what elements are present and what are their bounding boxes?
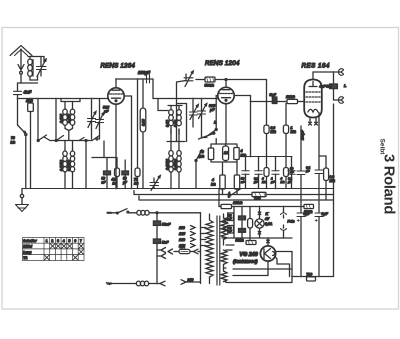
svg-text:5nF: 5nF bbox=[162, 241, 169, 245]
svg-text:100pF: 100pF bbox=[138, 70, 151, 75]
svg-text:10kΩ: 10kΩ bbox=[233, 201, 242, 205]
svg-text:μF: μF bbox=[287, 180, 292, 184]
wire vertical bbox=[55, 99, 57, 141]
svg-text:110: 110 bbox=[179, 226, 185, 230]
svg-text:kΩ: kΩ bbox=[134, 182, 139, 186]
svg-text:(RGN1064): (RGN1064) bbox=[233, 259, 258, 265]
svg-text:140: 140 bbox=[179, 238, 185, 242]
tube U3 RES164 bbox=[304, 80, 322, 118]
bus E resistor 10k bbox=[221, 204, 232, 208]
svg-text:8μF: 8μF bbox=[304, 212, 311, 216]
svg-text:μF: μF bbox=[253, 180, 258, 184]
fuse Fein bbox=[281, 207, 287, 239]
tube U2 right lead bbox=[234, 95, 250, 97]
svg-text:4: 4 bbox=[63, 239, 65, 243]
svg-text:μF: μF bbox=[305, 169, 310, 173]
block caps bbox=[239, 207, 246, 239]
svg-text:kΩ: kΩ bbox=[211, 183, 216, 187]
svg-text:3: 3 bbox=[57, 239, 59, 243]
cap under tube3 bbox=[297, 126, 305, 213]
svg-text:Ω: Ω bbox=[112, 182, 116, 186]
switch table bbox=[23, 238, 85, 261]
tube U1 left lead joins bus bbox=[107, 98, 109, 100]
svg-text:0.0920: 0.0920 bbox=[165, 159, 169, 170]
svg-text:nF: nF bbox=[228, 229, 232, 233]
transformer T1 secondary fil2 bbox=[221, 268, 227, 282]
bank switch contacts bbox=[44, 137, 84, 141]
svg-text:0.0930: 0.0930 bbox=[67, 160, 71, 171]
coil L2 0.020 bbox=[63, 102, 69, 131]
svg-text:100pF: 100pF bbox=[301, 129, 305, 140]
tube U1 RENS1264 bbox=[108, 88, 124, 104]
wire right of bank bbox=[77, 99, 93, 189]
anode feed wire bbox=[266, 80, 268, 126]
bus G bbox=[292, 276, 334, 278]
svg-text:MΩ: MΩ bbox=[291, 130, 297, 134]
rectifier right leads bbox=[233, 252, 292, 283]
switch S2 bbox=[55, 136, 63, 142]
tube U2 RENS1204 bbox=[218, 87, 234, 103]
jack J2 bbox=[334, 97, 344, 277]
mains cord line bbox=[107, 280, 201, 286]
svg-text:Schalter: Schalter bbox=[23, 239, 37, 243]
bus D bbox=[139, 196, 334, 200]
svg-text:50: 50 bbox=[200, 150, 204, 154]
svg-text:0.030: 0.030 bbox=[67, 114, 71, 123]
svg-text:0.020: 0.020 bbox=[60, 114, 64, 123]
antenna bbox=[10, 46, 32, 75]
rounded resistor bbox=[248, 207, 253, 239]
svg-text:4: 4 bbox=[240, 149, 243, 153]
bus H bbox=[226, 282, 292, 284]
resistor 0.3M bbox=[264, 125, 269, 157]
antenna trimmer C1 bbox=[37, 57, 47, 77]
capacitor 4nF bbox=[14, 83, 22, 99]
tube U1 top lead bbox=[116, 79, 153, 88]
right RC pair bbox=[315, 113, 329, 214]
mains switch line bbox=[108, 209, 201, 216]
svg-text:8μF: 8μF bbox=[322, 212, 329, 216]
svg-text:240: 240 bbox=[187, 278, 194, 282]
svg-text:50nF: 50nF bbox=[162, 223, 171, 227]
svg-text:125: 125 bbox=[179, 232, 186, 236]
transformer T1 core bbox=[217, 216, 220, 285]
coil bank lower loop bbox=[50, 141, 77, 149]
svg-text:0.0920: 0.0920 bbox=[60, 160, 64, 171]
svg-text:500Ω: 500Ω bbox=[205, 84, 214, 88]
svg-text:5: 5 bbox=[69, 239, 71, 243]
svg-text:K: K bbox=[266, 212, 269, 216]
svg-text:TA: TA bbox=[23, 256, 28, 260]
ground bus bbox=[22, 188, 334, 190]
svg-text:0.80: 0.80 bbox=[165, 120, 169, 127]
svg-text:7: 7 bbox=[80, 239, 82, 243]
svg-text:Seibt: Seibt bbox=[379, 139, 386, 156]
bypass cap 50uF bbox=[122, 160, 129, 189]
switch Kb bbox=[18, 99, 27, 189]
bus E bbox=[219, 206, 314, 208]
svg-text:4: 4 bbox=[211, 178, 214, 182]
table crosses bbox=[45, 244, 83, 260]
svg-text:nF: nF bbox=[241, 180, 245, 184]
resistor 10k bbox=[287, 99, 298, 103]
anode resistor 0.80 bbox=[140, 79, 146, 189]
band filter 2 top loop bbox=[158, 99, 182, 111]
coil L3 0.030 bbox=[69, 102, 75, 131]
svg-text:500Ω: 500Ω bbox=[236, 239, 245, 243]
trimmer C2 bbox=[88, 99, 97, 140]
coil L8 bbox=[169, 149, 173, 189]
svg-text:5nF: 5nF bbox=[270, 93, 277, 97]
transformer T1 secondary fil1 bbox=[221, 250, 232, 268]
svg-text:MΩ: MΩ bbox=[330, 179, 336, 183]
svg-text:kΩ: kΩ bbox=[200, 155, 205, 159]
tube U2 bottom lead bbox=[225, 104, 227, 144]
tube U3 pins bbox=[309, 118, 318, 126]
svg-text:10kΩ: 10kΩ bbox=[286, 95, 295, 99]
coil L6 bbox=[169, 106, 174, 135]
wave switch S1 bbox=[37, 99, 46, 142]
svg-text:4V: 4V bbox=[264, 217, 270, 221]
resistor 100 bbox=[28, 99, 34, 189]
antenna coil L1 bbox=[21, 57, 44, 84]
svg-text:2: 2 bbox=[51, 239, 53, 243]
coil L9 bbox=[177, 149, 181, 189]
svg-text:Mittel: Mittel bbox=[23, 245, 32, 249]
svg-text:Fein: Fein bbox=[288, 220, 295, 224]
resistor 500 box bbox=[196, 77, 215, 82]
coupling cap 100pF bbox=[147, 75, 150, 84]
switch L lever bbox=[206, 129, 218, 145]
svg-text:155: 155 bbox=[179, 244, 186, 248]
svg-text:3 Roland: 3 Roland bbox=[381, 154, 397, 214]
trimmer C3 bbox=[96, 99, 105, 140]
resistor 1M bbox=[283, 104, 288, 157]
svg-text:0,1A: 0,1A bbox=[265, 222, 273, 226]
switch S5 bbox=[195, 150, 202, 189]
svg-text:VG 240: VG 240 bbox=[240, 252, 258, 258]
transformer T1 taps bbox=[191, 213, 207, 284]
tube U3 top lead bbox=[313, 72, 334, 80]
top grid bus bbox=[18, 98, 109, 100]
link wire down bbox=[153, 79, 218, 99]
electrolytic 8uF no2 bbox=[315, 213, 323, 277]
coil L4 0.0920 bbox=[63, 149, 67, 189]
svg-text:nF: nF bbox=[228, 217, 232, 221]
svg-text:4nF: 4nF bbox=[23, 90, 32, 95]
svg-text:700: 700 bbox=[307, 273, 313, 277]
svg-text:kΩ: kΩ bbox=[11, 141, 16, 145]
tube2 grid lead bbox=[216, 96, 218, 130]
tube U2 top lead bbox=[215, 80, 266, 88]
osc branch wire bbox=[177, 104, 187, 142]
svg-text:6: 6 bbox=[74, 239, 76, 243]
svg-text:RENS 1204: RENS 1204 bbox=[205, 60, 240, 67]
svg-text:μF: μF bbox=[270, 180, 275, 184]
svg-text:RENS 1264: RENS 1264 bbox=[101, 63, 136, 70]
bus F bbox=[222, 237, 292, 239]
center wire bbox=[68, 131, 70, 141]
resistor 70k bbox=[135, 79, 140, 189]
svg-text:pF: pF bbox=[209, 108, 215, 112]
svg-text:70: 70 bbox=[11, 136, 15, 140]
lower boxes 4k bbox=[220, 162, 240, 195]
caps on selector column bbox=[153, 213, 160, 284]
svg-text:pF: pF bbox=[103, 110, 109, 114]
svg-text:0.80: 0.80 bbox=[141, 119, 145, 126]
electrolytic 8uF no1 bbox=[297, 213, 305, 277]
transformer T1 primary bbox=[206, 220, 213, 277]
bus E resistor 500 bbox=[304, 204, 314, 208]
heater line caps cluster bbox=[242, 157, 295, 189]
svg-text:1A: 1A bbox=[224, 151, 229, 155]
osc trimmer C7 bbox=[198, 99, 207, 138]
svg-text:0.0930: 0.0930 bbox=[173, 159, 177, 170]
svg-text:MΩ: MΩ bbox=[271, 130, 277, 134]
blocking cap 4nF bbox=[330, 72, 338, 100]
bus G resistor 700 bbox=[307, 277, 316, 281]
switch A bbox=[228, 189, 241, 198]
hv boxes 50/10 bbox=[223, 207, 234, 239]
dial lamp bbox=[255, 207, 264, 239]
switch lever 2 bbox=[199, 132, 215, 139]
coil L5 0.0930 bbox=[70, 149, 74, 189]
fuse 2A bbox=[168, 249, 201, 254]
tube U1 bottom lead bbox=[115, 104, 117, 188]
jack J1 bbox=[334, 69, 344, 76]
switch S3 bbox=[85, 136, 100, 142]
svg-text:1: 1 bbox=[46, 239, 48, 243]
transformer T1 secondary HT bbox=[221, 214, 234, 245]
wire to anode net bbox=[250, 102, 252, 157]
tube U1 right lead bbox=[124, 96, 131, 189]
cathode resistor 420 bbox=[115, 168, 120, 189]
selector forks bbox=[157, 248, 166, 259]
svg-text:Lang: Lang bbox=[23, 250, 32, 254]
bus C resistor 700 bbox=[252, 192, 266, 196]
cathode cap 50nF bbox=[104, 171, 111, 189]
osc trimmer C6 bbox=[190, 99, 199, 128]
osc feed wire bbox=[177, 81, 187, 142]
anode 5nF cap bbox=[272, 97, 277, 104]
rectifier top lead bbox=[267, 238, 270, 246]
coil L7 bbox=[177, 106, 182, 135]
coil bank top loop bbox=[61, 99, 80, 102]
filter mid wires bbox=[167, 126, 185, 149]
svg-text:4nF 500: 4nF 500 bbox=[319, 84, 332, 88]
AGC loop bbox=[208, 144, 239, 162]
ground symbol bbox=[16, 189, 29, 212]
grid line to tube3 bbox=[251, 96, 305, 102]
svg-text:RES 164: RES 164 bbox=[302, 63, 330, 70]
trimmer C4 bottom bbox=[150, 176, 160, 191]
svg-text:L: L bbox=[344, 84, 346, 88]
osc trimmer C5 bbox=[184, 71, 193, 87]
cathode feed wires bbox=[92, 141, 117, 171]
rectifier tube V1 bbox=[260, 246, 275, 261]
svg-text:nF: nF bbox=[290, 170, 294, 174]
bus C bbox=[134, 191, 334, 195]
